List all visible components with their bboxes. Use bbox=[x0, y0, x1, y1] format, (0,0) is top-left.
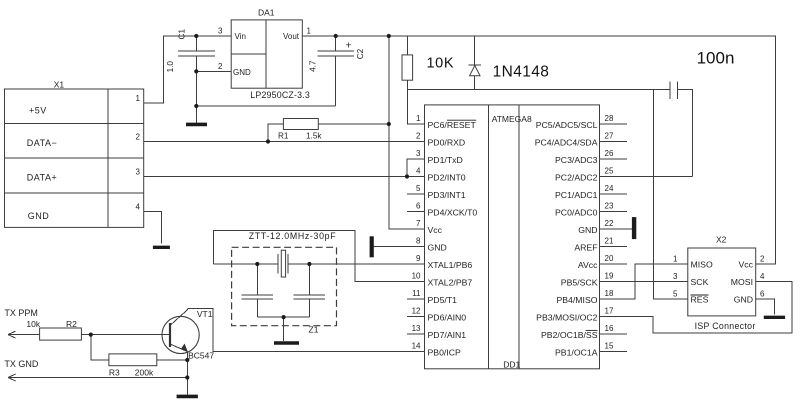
svg-text:DD1: DD1 bbox=[503, 359, 520, 369]
svg-text:DA1: DA1 bbox=[258, 8, 275, 18]
svg-text:22: 22 bbox=[605, 219, 614, 228]
svg-text:PD0/RXD: PD0/RXD bbox=[428, 137, 466, 147]
svg-text:5: 5 bbox=[673, 290, 678, 299]
svg-text:26: 26 bbox=[605, 149, 614, 158]
svg-text:ATMEGA8: ATMEGA8 bbox=[492, 114, 532, 124]
svg-text:SCK: SCK bbox=[691, 277, 709, 287]
svg-text:PD2/INT0: PD2/INT0 bbox=[428, 172, 466, 182]
svg-text:Vcc: Vcc bbox=[428, 225, 443, 235]
svg-text:2: 2 bbox=[760, 255, 765, 264]
svg-text:GND: GND bbox=[428, 242, 447, 252]
svg-text:X2: X2 bbox=[716, 235, 727, 245]
svg-text:PD7/AIN1: PD7/AIN1 bbox=[428, 330, 467, 340]
svg-text:28: 28 bbox=[605, 114, 614, 123]
svg-text:Vout: Vout bbox=[283, 32, 300, 41]
svg-text:12: 12 bbox=[412, 307, 421, 316]
svg-text:+: + bbox=[346, 40, 352, 52]
svg-text:+5V: +5V bbox=[29, 106, 47, 116]
svg-text:100n: 100n bbox=[697, 49, 735, 68]
svg-text:14: 14 bbox=[412, 342, 421, 351]
svg-text:AVcc: AVcc bbox=[578, 260, 598, 270]
svg-text:PD5/T1: PD5/T1 bbox=[428, 295, 458, 305]
svg-text:PB5/SCK: PB5/SCK bbox=[561, 277, 598, 287]
svg-text:2: 2 bbox=[218, 62, 223, 71]
svg-text:TX PPM: TX PPM bbox=[4, 308, 38, 318]
svg-text:PC5/ADC5/SCL: PC5/ADC5/SCL bbox=[536, 120, 598, 130]
svg-text:MISO: MISO bbox=[691, 260, 713, 270]
svg-text:19: 19 bbox=[605, 272, 614, 281]
svg-text:BC547: BC547 bbox=[188, 351, 214, 361]
svg-text:5: 5 bbox=[416, 184, 421, 193]
svg-text:3: 3 bbox=[416, 149, 421, 158]
svg-text:PB4/MISO: PB4/MISO bbox=[556, 295, 597, 305]
svg-text:24: 24 bbox=[605, 184, 614, 193]
svg-text:DATA+: DATA+ bbox=[27, 172, 57, 182]
svg-text:13: 13 bbox=[412, 324, 421, 333]
svg-text:PC2/ADC2: PC2/ADC2 bbox=[555, 172, 598, 182]
svg-text:PC0/ADC0: PC0/ADC0 bbox=[555, 207, 598, 217]
svg-text:PD4/XCK/T0: PD4/XCK/T0 bbox=[428, 207, 478, 217]
svg-text:10: 10 bbox=[412, 272, 421, 281]
svg-text:20: 20 bbox=[605, 254, 614, 263]
svg-text:10k: 10k bbox=[26, 319, 40, 329]
svg-text:1: 1 bbox=[136, 94, 141, 103]
svg-text:R3: R3 bbox=[109, 368, 120, 378]
svg-text:PC3/ADC3: PC3/ADC3 bbox=[555, 155, 598, 165]
svg-text:Vin: Vin bbox=[235, 32, 246, 41]
svg-text:1N4148: 1N4148 bbox=[493, 63, 550, 80]
svg-text:AREF: AREF bbox=[574, 242, 597, 252]
svg-text:C2: C2 bbox=[356, 48, 365, 59]
svg-text:4: 4 bbox=[760, 272, 765, 281]
svg-text:PB1/OC1A: PB1/OC1A bbox=[555, 347, 598, 357]
svg-text:3: 3 bbox=[673, 272, 678, 281]
svg-text:4: 4 bbox=[416, 167, 421, 176]
svg-text:15: 15 bbox=[605, 342, 614, 351]
svg-text:4: 4 bbox=[136, 202, 141, 211]
svg-text:PD3/INT1: PD3/INT1 bbox=[428, 190, 466, 200]
svg-text:XTAL1/PB6: XTAL1/PB6 bbox=[428, 260, 473, 270]
svg-text:2: 2 bbox=[136, 133, 141, 142]
svg-text:PD1/TxD: PD1/TxD bbox=[428, 155, 463, 165]
svg-text:ISP Connector: ISP Connector bbox=[695, 321, 756, 331]
svg-text:PC1/ADC1: PC1/ADC1 bbox=[555, 190, 598, 200]
svg-text:XTAL2/PB7: XTAL2/PB7 bbox=[428, 277, 473, 287]
svg-text:PC4/ADC4/SDA: PC4/ADC4/SDA bbox=[535, 137, 598, 147]
svg-text:LP2950CZ-3.3: LP2950CZ-3.3 bbox=[250, 90, 310, 100]
svg-text:25: 25 bbox=[605, 167, 614, 176]
svg-text:6: 6 bbox=[416, 202, 421, 211]
svg-text:Vcc: Vcc bbox=[739, 260, 754, 270]
svg-text:10K: 10K bbox=[427, 56, 455, 72]
svg-text:1: 1 bbox=[416, 114, 421, 123]
svg-text:GND: GND bbox=[28, 211, 50, 221]
svg-text:2: 2 bbox=[416, 132, 421, 141]
svg-text:9: 9 bbox=[416, 254, 421, 263]
svg-text:200k: 200k bbox=[135, 368, 154, 378]
svg-text:7: 7 bbox=[416, 219, 421, 228]
svg-text:1: 1 bbox=[307, 27, 312, 36]
svg-text:RES: RES bbox=[691, 295, 709, 305]
svg-text:4.7: 4.7 bbox=[308, 60, 317, 72]
svg-text:R1: R1 bbox=[278, 132, 289, 141]
svg-text:GND: GND bbox=[578, 225, 597, 235]
svg-text:1.5k: 1.5k bbox=[306, 132, 322, 141]
svg-text:GND: GND bbox=[734, 295, 753, 305]
svg-text:PB0/ICP: PB0/ICP bbox=[428, 347, 462, 357]
svg-text:GND: GND bbox=[233, 68, 251, 77]
svg-text:3: 3 bbox=[136, 168, 141, 177]
svg-text:18: 18 bbox=[605, 289, 614, 298]
svg-text:23: 23 bbox=[605, 202, 614, 211]
svg-text:27: 27 bbox=[605, 132, 614, 141]
svg-text:X1: X1 bbox=[54, 80, 65, 90]
svg-text:DATA−: DATA− bbox=[27, 138, 57, 148]
svg-text:17: 17 bbox=[605, 307, 614, 316]
svg-text:8: 8 bbox=[416, 237, 421, 246]
svg-text:11: 11 bbox=[412, 289, 421, 298]
svg-text:3: 3 bbox=[218, 27, 223, 36]
svg-text:1: 1 bbox=[673, 255, 678, 264]
svg-text:TX GND: TX GND bbox=[4, 359, 39, 369]
svg-text:MOSI: MOSI bbox=[731, 277, 753, 287]
svg-text:PB2/OC1B/SS: PB2/OC1B/SS bbox=[541, 330, 598, 340]
svg-text:PC6/RESET: PC6/RESET bbox=[428, 120, 477, 130]
svg-text:PB3/MOSI/OC2: PB3/MOSI/OC2 bbox=[536, 312, 597, 322]
svg-text:Z1: Z1 bbox=[309, 325, 319, 335]
svg-text:VT1: VT1 bbox=[197, 309, 213, 319]
svg-text:C1: C1 bbox=[178, 29, 187, 40]
svg-text:16: 16 bbox=[605, 324, 614, 333]
svg-text:PD6/AIN0: PD6/AIN0 bbox=[428, 312, 467, 322]
svg-text:1.0: 1.0 bbox=[166, 61, 175, 73]
svg-text:ZTT-12.0MHz-30pF: ZTT-12.0MHz-30pF bbox=[249, 231, 337, 241]
svg-text:6: 6 bbox=[760, 290, 765, 299]
svg-text:R2: R2 bbox=[66, 319, 77, 329]
svg-text:21: 21 bbox=[605, 237, 614, 246]
